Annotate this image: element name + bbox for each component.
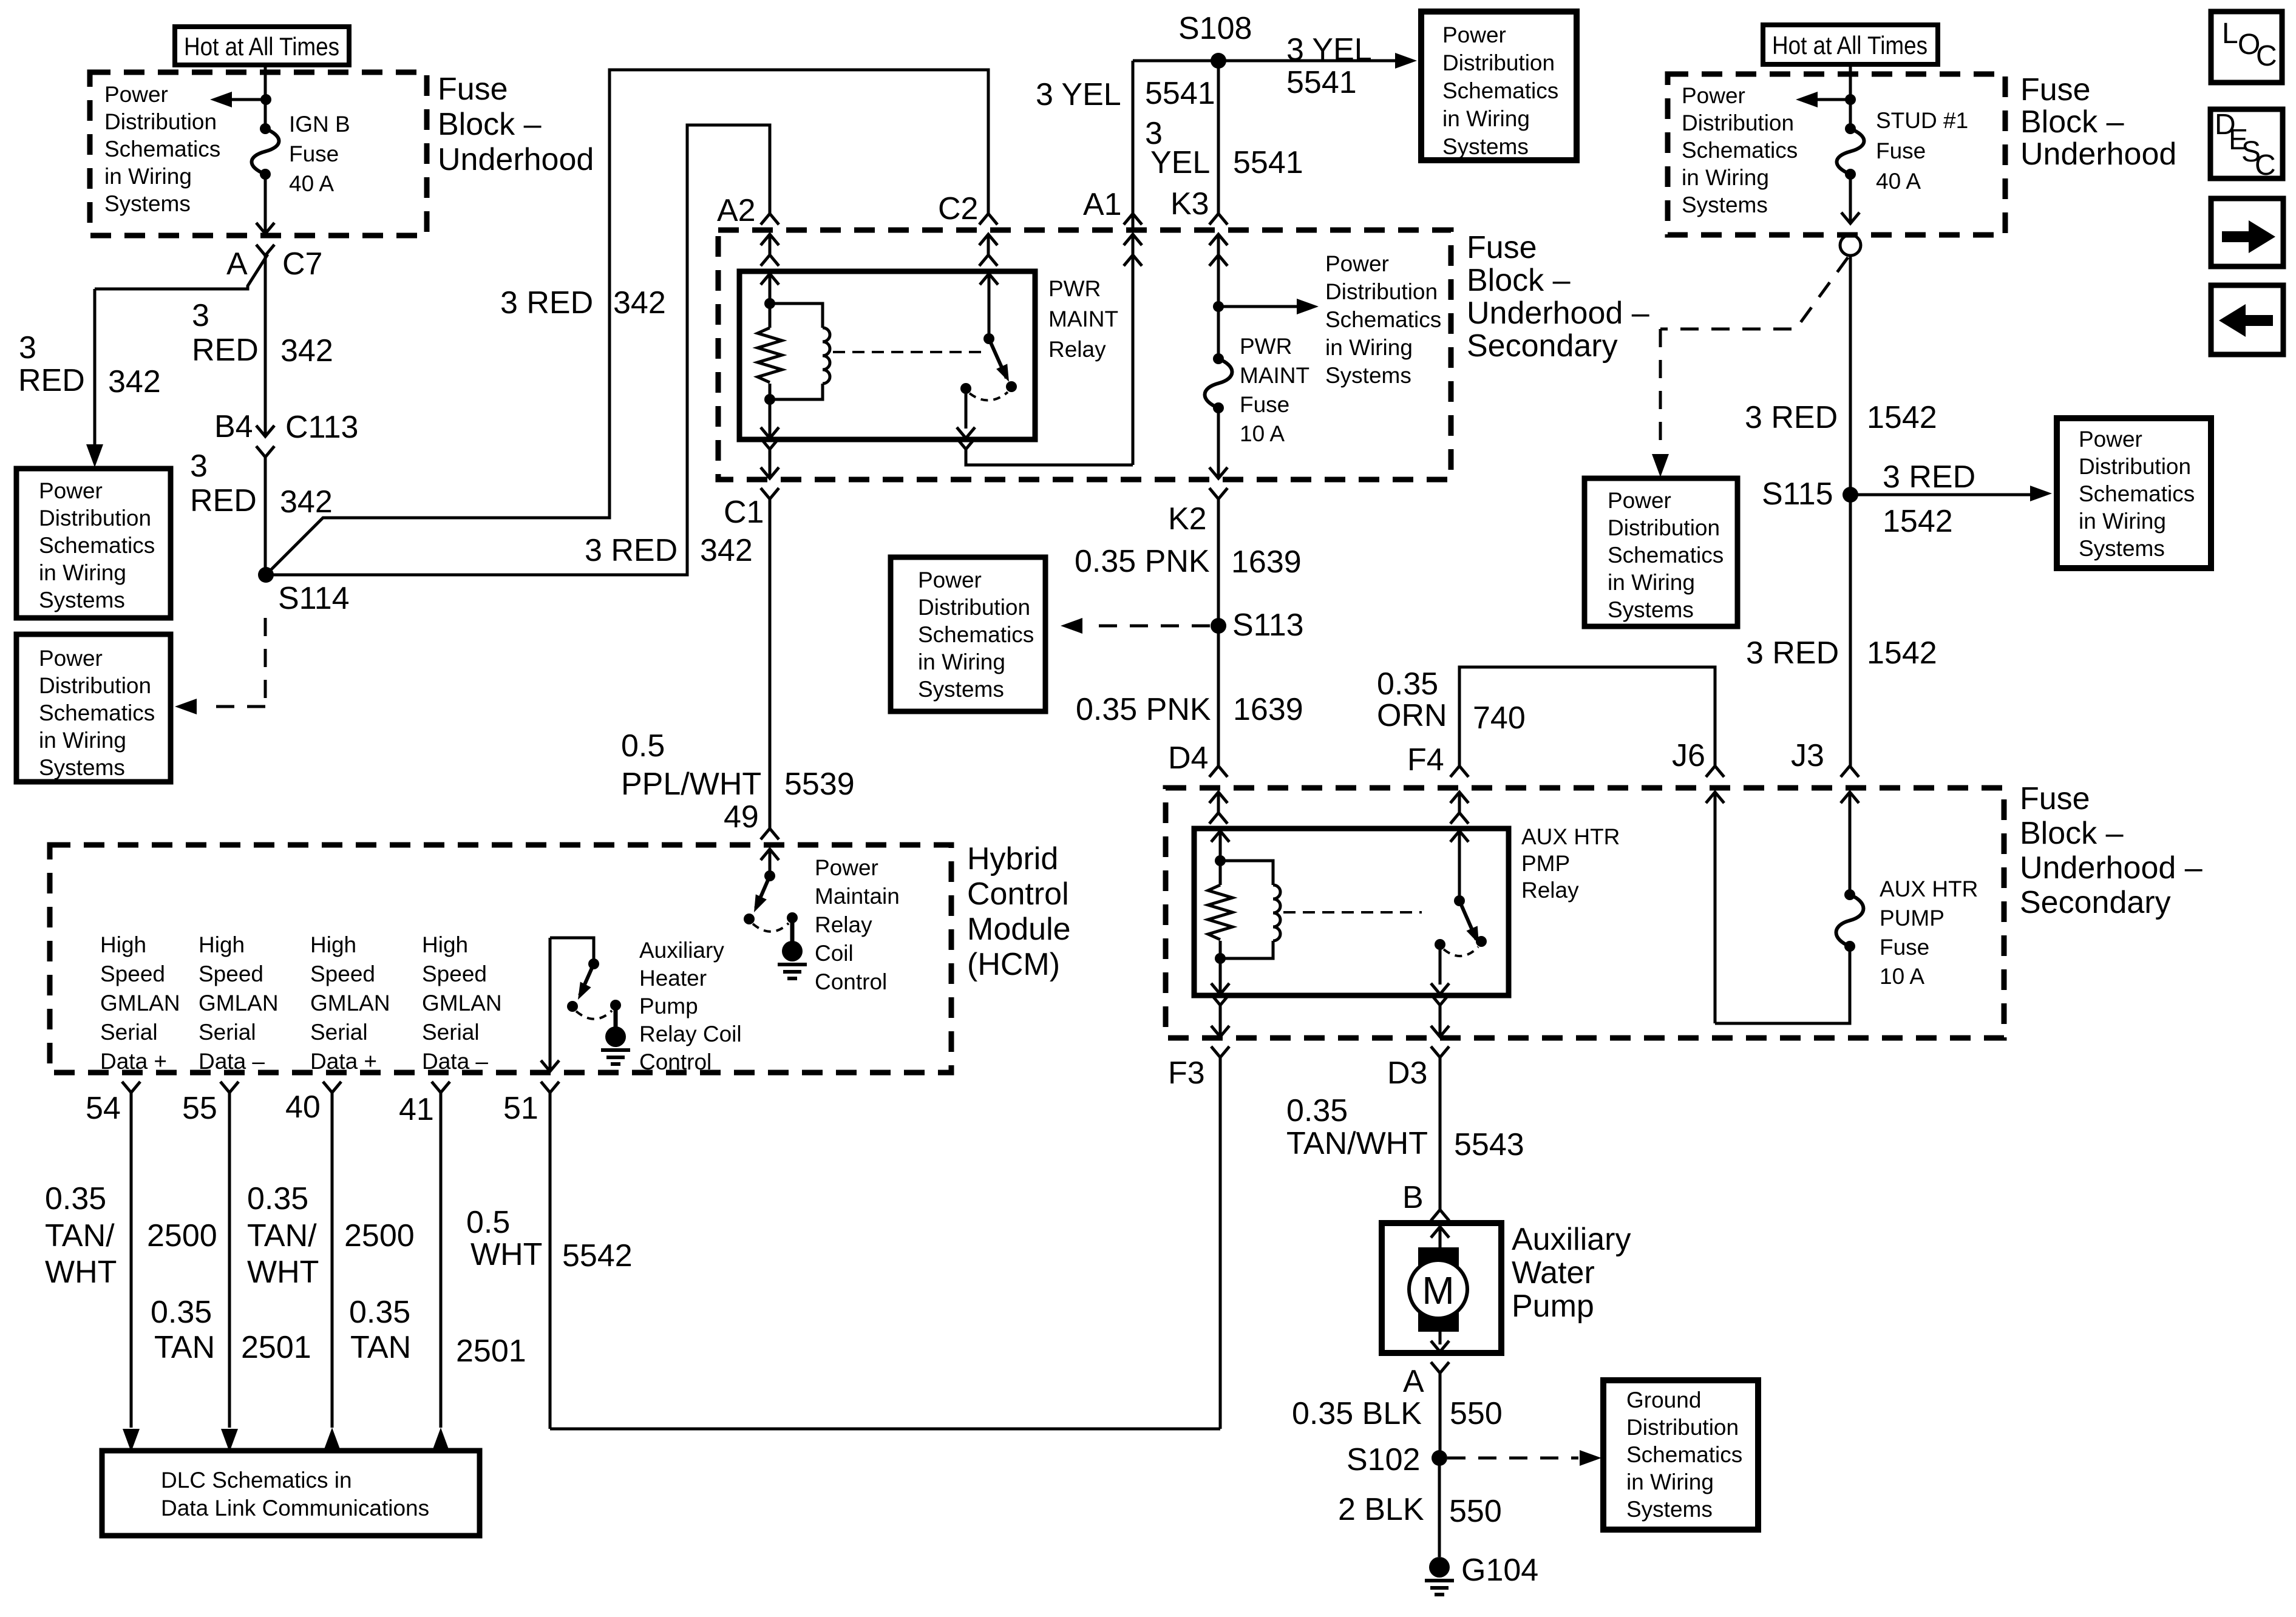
svg-text:0.35: 0.35 bbox=[349, 1295, 410, 1330]
label: 3 RED 1542 (S115-J3 wire) bbox=[1746, 636, 1937, 671]
svg-text:B: B bbox=[1402, 1180, 1424, 1215]
svg-text:YEL: YEL bbox=[1150, 145, 1210, 180]
svg-text:Control: Control bbox=[815, 969, 887, 994]
svg-text:High: High bbox=[310, 932, 356, 957]
relay coil resistor (PWR MAINT) bbox=[758, 298, 782, 405]
svg-text:in Wiring: in Wiring bbox=[918, 649, 1005, 674]
svg-text:PWR: PWR bbox=[1240, 334, 1292, 359]
svg-text:GMLAN: GMLAN bbox=[310, 991, 390, 1015]
connector D3 exit bbox=[1387, 994, 1449, 1091]
label: 0.35 TAN/WHT 2500 (wire 54) bbox=[45, 1181, 217, 1290]
wire 41 to DLC bbox=[432, 1093, 449, 1451]
fuse AUX HTR PUMP Fuse 10 A bbox=[1836, 876, 1978, 989]
relay link dashes (AUX HTR PMP) bbox=[1283, 911, 1422, 914]
svg-text:40: 40 bbox=[285, 1090, 321, 1125]
svg-text:Schematics: Schematics bbox=[1608, 543, 1724, 568]
svg-text:Relay: Relay bbox=[815, 912, 872, 937]
svg-text:TAN/: TAN/ bbox=[247, 1218, 317, 1253]
svg-text:Speed: Speed bbox=[100, 961, 165, 986]
dashed wire: S114 to Power Distribution box (lower left) bbox=[175, 618, 265, 714]
relay coil entry arrow (AUX HTR PMP) bbox=[1211, 831, 1229, 861]
svg-text:Coil: Coil bbox=[815, 941, 854, 966]
connector C2 bbox=[938, 191, 997, 266]
svg-text:Pump: Pump bbox=[1512, 1289, 1594, 1324]
box: Power Distribution Schematics in Wiring Systems (right of S115) bbox=[2057, 418, 2211, 568]
svg-text:Speed: Speed bbox=[199, 961, 263, 986]
svg-text:J3: J3 bbox=[1791, 738, 1824, 773]
svg-text:Power: Power bbox=[39, 646, 103, 671]
label: 2 BLK 550 bbox=[1338, 1492, 1502, 1529]
svg-text:Heater: Heater bbox=[639, 966, 707, 991]
relay coil exit arrow (AUX HTR PMP) bbox=[1211, 958, 1229, 994]
wire 51 (0.5 WHT 5542) bbox=[550, 1093, 1220, 1429]
relay coil inductor (PWR MAINT) bbox=[770, 303, 830, 399]
wire: K3 into fuse block to PWR MAINT fuse bbox=[1217, 255, 1220, 359]
svg-text:Secondary: Secondary bbox=[1467, 328, 1618, 364]
svg-text:Fuse: Fuse bbox=[1880, 935, 1929, 960]
svg-text:Fuse: Fuse bbox=[289, 141, 339, 166]
svg-text:Serial: Serial bbox=[199, 1020, 256, 1045]
wire: fuse to J6 loop bbox=[1715, 811, 1850, 1023]
wire: relay1 switch output to A1 bbox=[957, 255, 1133, 465]
label: 0.5 PPL/WHT 5539 bbox=[621, 728, 855, 802]
fuse PWR MAINT Fuse 10 A bbox=[1205, 334, 1310, 446]
motor M (auxiliary water pump) bbox=[1409, 1227, 1467, 1352]
svg-text:C7: C7 bbox=[282, 246, 322, 282]
svg-text:342: 342 bbox=[108, 364, 161, 399]
node S114 bbox=[258, 567, 350, 616]
svg-text:A: A bbox=[226, 246, 248, 282]
svg-text:K3: K3 bbox=[1170, 186, 1209, 222]
svg-text:Schematics: Schematics bbox=[39, 700, 155, 725]
svg-text:L: L bbox=[2222, 18, 2238, 50]
svg-text:AUX HTR: AUX HTR bbox=[1521, 824, 1620, 849]
box: DLC Schematics in Data Link Communications bbox=[102, 1451, 480, 1536]
svg-text:51: 51 bbox=[503, 1091, 538, 1126]
svg-text:Data Link Communications: Data Link Communications bbox=[161, 1496, 429, 1520]
relay switch (AUX HTR PMP) bbox=[1431, 831, 1487, 994]
box: Power Distribution Schematics in Wiring Systems (upper left) bbox=[16, 469, 171, 618]
svg-text:Power: Power bbox=[2079, 427, 2142, 452]
svg-text:(HCM): (HCM) bbox=[967, 947, 1060, 982]
wire: S114 up-branch to A2 loop (outer) bbox=[266, 70, 988, 575]
svg-text:High: High bbox=[100, 932, 146, 957]
svg-text:Power: Power bbox=[1682, 83, 1745, 108]
svg-text:Speed: Speed bbox=[422, 961, 487, 986]
svg-text:550: 550 bbox=[1449, 1494, 1502, 1529]
svg-text:Hybrid: Hybrid bbox=[967, 841, 1058, 876]
text: High Speed GMLAN Serial Data + (col 1) bbox=[100, 932, 180, 1074]
svg-text:5543: 5543 bbox=[1454, 1127, 1524, 1162]
svg-text:Distribution: Distribution bbox=[104, 109, 217, 134]
connector pin 51 bbox=[503, 1082, 559, 1126]
connector pin 41 bbox=[399, 1082, 450, 1127]
svg-text:49: 49 bbox=[724, 799, 759, 835]
stud circle connector bbox=[1840, 235, 1861, 256]
label: 0.35 TAN/WHT 5543 bbox=[1286, 1093, 1524, 1162]
box: Power Distribution Schematics in Wiring Systems (below stud) bbox=[1584, 478, 1737, 626]
wire 40 to DLC bbox=[324, 1093, 341, 1451]
connector pin 49 (HCM) bbox=[724, 799, 779, 876]
label: Hybrid Control Module (HCM) bbox=[967, 841, 1071, 982]
svg-text:342: 342 bbox=[280, 484, 333, 520]
svg-text:550: 550 bbox=[1450, 1396, 1503, 1431]
svg-text:Systems: Systems bbox=[2079, 536, 2165, 561]
svg-text:Relay: Relay bbox=[1521, 878, 1579, 903]
connector J6 bbox=[1672, 738, 1724, 811]
wire: S108 down to K3 bbox=[1217, 61, 1220, 214]
box: Power Distribution Schematics in Wiring Systems (middle) bbox=[891, 557, 1045, 711]
label: 0.35 BLK 550 bbox=[1292, 1396, 1503, 1431]
dashed wire: stud to secondary fuse block box bbox=[1652, 257, 1848, 477]
auxiliary water pump box bbox=[1382, 1222, 1631, 1353]
svg-text:A: A bbox=[1403, 1364, 1424, 1399]
svg-text:Systems: Systems bbox=[39, 755, 125, 780]
svg-text:PUMP: PUMP bbox=[1880, 906, 1944, 931]
svg-text:3 YEL: 3 YEL bbox=[1036, 77, 1121, 112]
module label box: Hot at All Times (left) bbox=[175, 27, 349, 65]
svg-text:WHT: WHT bbox=[470, 1237, 542, 1272]
svg-text:Speed: Speed bbox=[310, 961, 375, 986]
svg-text:Schematics: Schematics bbox=[39, 533, 155, 558]
svg-text:Power: Power bbox=[918, 568, 982, 592]
connector B4 / C113 bbox=[214, 409, 358, 457]
svg-text:Pump: Pump bbox=[639, 994, 698, 1019]
svg-text:High: High bbox=[199, 932, 245, 957]
svg-text:G104: G104 bbox=[1461, 1553, 1538, 1588]
fuse IGN B Fuse 40 A bbox=[252, 112, 350, 196]
text: Power Distribution Schematics in Wiring Systems (left fuse block) bbox=[104, 82, 220, 216]
relay coil resistor (AUX HTR PMP) bbox=[1208, 855, 1232, 964]
svg-text:B4: B4 bbox=[214, 409, 253, 444]
text: Auxiliary Heater Pump Relay Coil Control bbox=[639, 938, 742, 1074]
svg-text:1542: 1542 bbox=[1867, 636, 1937, 671]
svg-text:Hot at All Times: Hot at All Times bbox=[184, 32, 339, 61]
svg-text:0.35: 0.35 bbox=[1286, 1093, 1348, 1128]
svg-text:Power: Power bbox=[104, 82, 168, 107]
svg-text:Block –: Block – bbox=[1467, 263, 1571, 298]
svg-text:Block –: Block – bbox=[438, 107, 542, 142]
wire: S102 to G104 bbox=[1438, 1458, 1441, 1557]
svg-text:3: 3 bbox=[190, 449, 208, 484]
wire: S115 to J3 bbox=[1849, 495, 1852, 766]
label: 3 RED 1542 (stud wire) bbox=[1745, 400, 1937, 435]
svg-text:S108: S108 bbox=[1178, 11, 1252, 46]
svg-text:Schematics: Schematics bbox=[1682, 138, 1798, 163]
svg-text:342: 342 bbox=[280, 333, 333, 368]
svg-text:55: 55 bbox=[182, 1091, 217, 1126]
svg-text:in Wiring: in Wiring bbox=[1682, 165, 1769, 190]
svg-text:Power: Power bbox=[815, 855, 878, 880]
svg-text:Systems: Systems bbox=[1626, 1497, 1713, 1522]
svg-text:F3: F3 bbox=[1168, 1056, 1205, 1091]
svg-text:J6: J6 bbox=[1672, 738, 1705, 773]
svg-text:Control: Control bbox=[639, 1049, 712, 1074]
label: 3 YEL 5541 (K3 wire) bbox=[1145, 116, 1303, 180]
svg-text:Schematics: Schematics bbox=[1442, 78, 1558, 103]
svg-text:Control: Control bbox=[967, 876, 1069, 912]
wire: branch A to Power Distribution box (3 RED 342) bbox=[86, 254, 268, 467]
wire: C1 to HCM pin 49 bbox=[769, 499, 772, 829]
svg-text:Distribution: Distribution bbox=[1442, 50, 1555, 75]
label: Fuse Block - Underhood (left) bbox=[438, 72, 594, 177]
connector A1 bbox=[1083, 187, 1142, 266]
node S102 bbox=[1347, 1442, 1447, 1477]
svg-text:2 BLK: 2 BLK bbox=[1338, 1492, 1424, 1527]
svg-text:5541: 5541 bbox=[1233, 145, 1303, 180]
svg-text:3 RED: 3 RED bbox=[500, 285, 593, 320]
svg-text:Serial: Serial bbox=[310, 1020, 368, 1045]
svg-text:in Wiring: in Wiring bbox=[1608, 570, 1695, 595]
relay coil inductor (AUX HTR PMP) bbox=[1220, 861, 1280, 958]
text: High Speed GMLAN Serial Data - (col 4) bbox=[422, 932, 502, 1074]
svg-text:Distribution: Distribution bbox=[1682, 110, 1794, 135]
svg-text:DLC Schematics in: DLC Schematics in bbox=[161, 1468, 352, 1493]
connector C1 exit bbox=[724, 438, 779, 530]
svg-text:Systems: Systems bbox=[1608, 597, 1694, 622]
svg-text:Underhood –: Underhood – bbox=[1467, 296, 1649, 331]
label: Fuse Block - Underhood (right) bbox=[2020, 72, 2176, 172]
svg-text:A2: A2 bbox=[717, 193, 756, 228]
svg-text:Auxiliary: Auxiliary bbox=[1512, 1222, 1631, 1257]
svg-text:2501: 2501 bbox=[241, 1330, 311, 1365]
svg-text:2501: 2501 bbox=[456, 1334, 526, 1369]
node S108 bbox=[1178, 11, 1252, 69]
box: Power Distribution Schematics in Wiring Systems (lower left) bbox=[16, 634, 171, 782]
svg-text:5541: 5541 bbox=[1286, 65, 1357, 100]
relay coil entry arrow (PWR MAINT) bbox=[761, 274, 779, 303]
arrow: to Power Distribution Schematics text (inside box) bbox=[1213, 299, 1319, 314]
svg-text:Data +: Data + bbox=[100, 1049, 167, 1074]
wire: K2 to S113 bbox=[1217, 499, 1220, 626]
svg-text:S115: S115 bbox=[1762, 476, 1833, 512]
svg-text:Module: Module bbox=[967, 912, 1071, 947]
svg-text:C: C bbox=[2255, 149, 2276, 181]
connector A / C7 bbox=[226, 246, 322, 282]
label: 3 RED 342 (C113-S114 wire) bbox=[190, 449, 333, 520]
svg-text:Fuse: Fuse bbox=[2020, 72, 2091, 107]
svg-text:TAN/WHT: TAN/WHT bbox=[1286, 1126, 1428, 1161]
svg-text:0.35 PNK: 0.35 PNK bbox=[1075, 544, 1210, 579]
svg-text:0.5: 0.5 bbox=[466, 1205, 510, 1240]
legend box left-arrow bbox=[2211, 285, 2283, 354]
svg-text:5542: 5542 bbox=[562, 1238, 633, 1273]
svg-text:Distribution: Distribution bbox=[1626, 1415, 1739, 1440]
svg-text:Fuse: Fuse bbox=[2020, 781, 2090, 816]
switch: Auxiliary Heater Pump Relay Coil Control bbox=[550, 938, 621, 1027]
hybrid control module dashed box (HCM) bbox=[50, 845, 951, 1073]
label: 0.35 TAN 2501 (wire 55) bbox=[151, 1295, 311, 1365]
svg-text:0.35: 0.35 bbox=[1377, 666, 1438, 702]
svg-text:3 RED: 3 RED bbox=[585, 533, 678, 568]
svg-text:40 A: 40 A bbox=[289, 171, 334, 196]
svg-text:0.5: 0.5 bbox=[621, 728, 665, 764]
relay box: PWR MAINT Relay bbox=[739, 271, 1118, 439]
svg-text:Schematics: Schematics bbox=[1626, 1442, 1742, 1467]
svg-text:A1: A1 bbox=[1083, 187, 1122, 222]
svg-text:342: 342 bbox=[613, 285, 666, 320]
wire: stud to S115 bbox=[1849, 256, 1852, 495]
svg-text:High: High bbox=[422, 932, 468, 957]
svg-text:Distribution: Distribution bbox=[1325, 279, 1438, 304]
wire: A1 to S108 bbox=[1133, 61, 1406, 230]
wire: fuse to connector C7 exit bbox=[256, 174, 274, 435]
svg-text:Fuse: Fuse bbox=[1876, 138, 1926, 163]
svg-text:Power: Power bbox=[39, 478, 103, 503]
svg-text:in Wiring: in Wiring bbox=[1626, 1470, 1714, 1494]
svg-text:3 RED: 3 RED bbox=[1746, 636, 1839, 671]
connector pin 55 bbox=[182, 1082, 239, 1126]
svg-text:Serial: Serial bbox=[100, 1020, 158, 1045]
label: Fuse Block - Underhood - Secondary (right) bbox=[2020, 781, 2203, 920]
svg-text:in Wiring: in Wiring bbox=[39, 560, 126, 585]
wire: D3 to auxiliary water pump bbox=[1439, 1057, 1442, 1210]
svg-text:Power: Power bbox=[1608, 488, 1671, 513]
svg-text:S114: S114 bbox=[278, 581, 350, 616]
text: High Speed GMLAN Serial Data - (col 2) bbox=[199, 932, 279, 1074]
svg-text:3 RED: 3 RED bbox=[1745, 400, 1838, 435]
fuse STUD #1 Fuse 40 A bbox=[1837, 108, 1969, 194]
relay box: AUX HTR PMP Relay bbox=[1194, 824, 1620, 995]
wire: pin 51 inside HCM bbox=[541, 938, 559, 1071]
relay switch (PWR MAINT) bbox=[957, 274, 1017, 438]
svg-text:RED: RED bbox=[192, 333, 259, 368]
connector F3 exit bbox=[1168, 994, 1229, 1091]
svg-text:1542: 1542 bbox=[1883, 504, 1953, 539]
svg-text:Secondary: Secondary bbox=[2020, 885, 2171, 920]
svg-text:TAN/: TAN/ bbox=[45, 1218, 115, 1253]
svg-text:PMP: PMP bbox=[1521, 851, 1570, 876]
svg-text:Relay: Relay bbox=[1048, 337, 1106, 362]
svg-text:2500: 2500 bbox=[147, 1218, 217, 1253]
svg-text:PPL/WHT: PPL/WHT bbox=[621, 767, 761, 802]
svg-text:Fuse: Fuse bbox=[438, 72, 508, 107]
connector F4 bbox=[1407, 742, 1469, 824]
svg-text:in Wiring: in Wiring bbox=[39, 728, 126, 753]
label: 0.35 TAN 2501 (wire 41) bbox=[349, 1295, 526, 1369]
text: Power Maintain Relay Coil Control bbox=[815, 855, 900, 994]
svg-text:Power: Power bbox=[1325, 251, 1389, 276]
svg-text:1639: 1639 bbox=[1233, 692, 1303, 727]
svg-text:WHT: WHT bbox=[45, 1255, 117, 1290]
svg-text:Schematics: Schematics bbox=[918, 622, 1034, 647]
svg-text:Distribution: Distribution bbox=[39, 673, 151, 698]
svg-text:740: 740 bbox=[1473, 700, 1526, 736]
label: 3 RED 342 (branch A wire) bbox=[18, 330, 161, 399]
svg-text:C1: C1 bbox=[724, 495, 764, 530]
svg-text:Systems: Systems bbox=[918, 677, 1004, 702]
connector A (pump) bbox=[1403, 1362, 1449, 1399]
wire: S114 straight branch to A2 (inner) bbox=[266, 125, 770, 575]
svg-text:GMLAN: GMLAN bbox=[199, 991, 279, 1015]
connector B (pump) bbox=[1402, 1180, 1449, 1221]
legend box DESC bbox=[2210, 109, 2283, 181]
svg-text:3 RED: 3 RED bbox=[1883, 459, 1975, 495]
wire: J3 to AUX HTR PUMP fuse bbox=[1849, 811, 1852, 895]
svg-text:Auxiliary: Auxiliary bbox=[639, 938, 724, 963]
svg-text:in Wiring: in Wiring bbox=[1325, 335, 1413, 360]
svg-text:WHT: WHT bbox=[247, 1255, 319, 1290]
svg-text:Systems: Systems bbox=[1325, 363, 1411, 388]
svg-text:Distribution: Distribution bbox=[1608, 515, 1720, 540]
relay coil exit arrow (PWR MAINT) bbox=[761, 399, 779, 438]
switch: Power Maintain Relay Coil Control bbox=[744, 870, 798, 941]
svg-text:IGN B: IGN B bbox=[289, 112, 350, 137]
fuse block - underhood - secondary dashed box (top) bbox=[718, 230, 1451, 480]
svg-text:D4: D4 bbox=[1168, 741, 1208, 776]
label: 3 RED 342 (outer loop wire) bbox=[500, 285, 666, 320]
wire: F4 to J6 (0.35 ORN 740) bbox=[1459, 667, 1715, 766]
arrow: S115 to Power Distribution box (right) bbox=[1850, 459, 2052, 539]
svg-text:Block –: Block – bbox=[2020, 104, 2124, 140]
connector K3 bbox=[1170, 186, 1228, 266]
label: 0.35 TAN/WHT 2500 (wire 40) bbox=[247, 1181, 415, 1290]
arrow to Power Distribution Schematics (left) bbox=[210, 92, 265, 107]
label: Fuse Block - Underhood - Secondary (top) bbox=[1467, 230, 1649, 364]
wire: C113 to S114 bbox=[264, 457, 267, 575]
label: 3 RED 342 (inner loop wire) bbox=[585, 533, 753, 568]
wire: S113 to D4 bbox=[1217, 626, 1220, 766]
svg-text:in Wiring: in Wiring bbox=[104, 164, 192, 189]
box: Power Distribution Schematics in Wiring Systems (top right of S108) bbox=[1421, 12, 1577, 160]
svg-text:ORN: ORN bbox=[1377, 698, 1447, 733]
svg-text:Fuse: Fuse bbox=[1467, 230, 1537, 265]
svg-text:C2: C2 bbox=[938, 191, 978, 226]
connector A2 bbox=[717, 193, 779, 266]
text: High Speed GMLAN Serial Data + (col 3) bbox=[310, 932, 390, 1074]
label: 0.35 PNK 1639 (upper) bbox=[1075, 544, 1302, 580]
svg-text:MAINT: MAINT bbox=[1048, 307, 1118, 331]
svg-text:K2: K2 bbox=[1168, 501, 1207, 537]
svg-text:Schematics: Schematics bbox=[104, 137, 220, 161]
svg-text:1542: 1542 bbox=[1867, 400, 1937, 435]
svg-text:STUD #1: STUD #1 bbox=[1876, 108, 1968, 133]
arrow to Power Distribution Schematics (right) bbox=[1796, 92, 1850, 107]
svg-text:Maintain: Maintain bbox=[815, 884, 900, 909]
wire: Hot at All Times to IGN B fuse bbox=[260, 65, 271, 129]
svg-text:TAN: TAN bbox=[154, 1330, 215, 1365]
relay link dashes (PWR MAINT) bbox=[833, 351, 982, 353]
svg-text:C113: C113 bbox=[285, 410, 358, 445]
svg-text:Power: Power bbox=[1442, 22, 1506, 47]
label: 0.5 WHT 5542 (wire 51) bbox=[466, 1205, 633, 1273]
dashed arrow: S102 to Ground Distribution box bbox=[1447, 1450, 1601, 1466]
text: Power Distribution Schematics in Wiring Systems (inside fuse block) bbox=[1325, 251, 1441, 388]
connector pin 54 bbox=[86, 1082, 140, 1126]
svg-text:Block –: Block – bbox=[2020, 816, 2124, 851]
svg-text:Hot at All Times: Hot at All Times bbox=[1772, 31, 1927, 59]
svg-text:TAN: TAN bbox=[350, 1330, 411, 1365]
svg-text:PWR: PWR bbox=[1048, 276, 1101, 301]
svg-text:Distribution: Distribution bbox=[2079, 454, 2191, 479]
label: 3 RED 342 (C7-C113 wire) bbox=[192, 298, 333, 368]
svg-text:Relay Coil: Relay Coil bbox=[639, 1022, 742, 1046]
svg-text:D3: D3 bbox=[1387, 1056, 1427, 1091]
svg-text:Systems: Systems bbox=[1682, 192, 1768, 217]
dashed arrow: S113 to Power Distribution box (middle) bbox=[1061, 618, 1210, 634]
svg-text:AUX HTR: AUX HTR bbox=[1880, 876, 1978, 901]
label: 0.35 ORN 740 bbox=[1377, 666, 1526, 736]
svg-text:41: 41 bbox=[399, 1092, 434, 1127]
fuse block - underhood dashed box (right) bbox=[1668, 74, 2005, 235]
svg-text:M: M bbox=[1422, 1269, 1454, 1312]
svg-text:S113: S113 bbox=[1232, 608, 1304, 643]
svg-text:Underhood: Underhood bbox=[438, 142, 594, 177]
module label box: Hot at All Times (right) bbox=[1763, 25, 1938, 64]
wire: fuse to stud circle bbox=[1841, 174, 1860, 223]
svg-text:3: 3 bbox=[192, 298, 209, 333]
ground: Power Maintain relay coil control bbox=[778, 941, 807, 978]
